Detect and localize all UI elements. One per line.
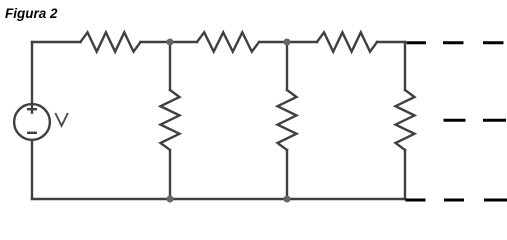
svg-text:Figura 2: Figura 2 xyxy=(5,6,58,21)
